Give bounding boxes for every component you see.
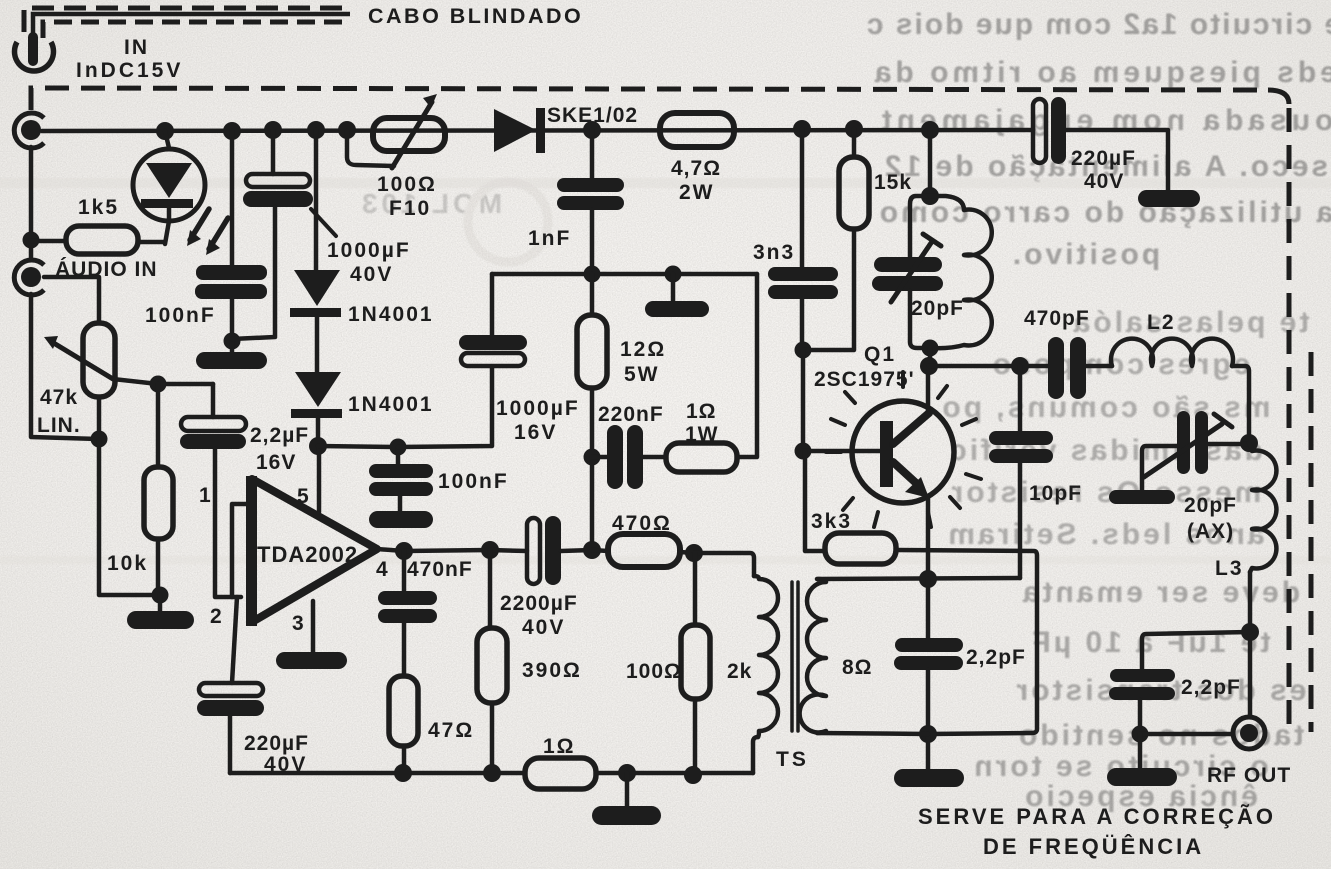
- rail B: emitter/secondary: [817, 578, 1020, 579]
- svg-text:390Ω: 390Ω: [522, 659, 582, 682]
- svg-text:16V: 16V: [514, 421, 557, 444]
- svg-text:100nF: 100nF: [145, 304, 216, 327]
- AUDIO IN RCA connector: [21, 267, 41, 287]
- capacitor 2,2uF 16V: [211, 384, 216, 417]
- shielded-cable dashed line 3: [43, 22, 348, 38]
- svg-text:4: 4: [376, 558, 388, 581]
- svg-text:2,2pF: 2,2pF: [966, 646, 1026, 669]
- svg-text:2W: 2W: [679, 181, 715, 204]
- resistor 1k5: [31, 239, 66, 244]
- fuse-resistor 100R F10: [347, 131, 394, 166]
- resistor 4,7R 2W: [660, 113, 734, 147]
- node: [1011, 357, 1029, 375]
- potentiometer 47k LIN: [44, 277, 99, 323]
- svg-text:RF OUT: RF OUT: [1207, 764, 1291, 787]
- diode 1N4001 (second): [295, 372, 341, 407]
- svg-text:2,2µF: 2,2µF: [250, 424, 309, 447]
- transformer TS primary: [753, 737, 758, 773]
- svg-text:1W: 1W: [685, 423, 719, 446]
- ground: [369, 511, 433, 528]
- capacitor 470pF: [1048, 337, 1064, 399]
- svg-text:a utilização do carro como: a utilização do carro como: [877, 196, 1331, 229]
- svg-text:100Ω: 100Ω: [377, 173, 437, 196]
- resistor 47R: [389, 676, 418, 746]
- node: [481, 541, 499, 559]
- emitter wire: [926, 497, 931, 579]
- dashed border right vertical 2: [1309, 352, 1314, 732]
- svg-text:15k: 15k: [874, 171, 912, 194]
- svg-text:(AX): (AX): [1187, 520, 1234, 543]
- capacitor 2200uF 40V: [527, 518, 540, 584]
- shielded-cable line 2 (solid): [33, 14, 350, 40]
- node: [150, 376, 167, 393]
- coil L2: [1111, 339, 1233, 366]
- svg-text:1N4001: 1N4001: [348, 303, 434, 326]
- resistor 1R: [525, 758, 596, 789]
- node: [684, 766, 702, 784]
- svg-text:LIN.: LIN.: [37, 414, 81, 437]
- svg-text:220nF: 220nF: [598, 403, 664, 426]
- capacitor 220nF: [592, 455, 607, 460]
- svg-text:2k: 2k: [727, 660, 752, 683]
- power plug connector: [14, 42, 53, 71]
- RF OUT connector: [1240, 724, 1258, 742]
- svg-text:Q1: Q1: [864, 343, 896, 366]
- svg-text:40V: 40V: [1084, 170, 1124, 193]
- capacitor 220uF 40V (pin2): [232, 597, 237, 683]
- svg-text:1000µF: 1000µF: [327, 239, 411, 262]
- svg-text:leds piesquem ao ritmo da: leds piesquem ao ritmo da: [871, 56, 1331, 89]
- wire: mid rail y=274: [492, 272, 757, 277]
- ground: [127, 611, 194, 629]
- wire pin5 node to 1000uF16V: [398, 368, 492, 447]
- node: [483, 764, 501, 782]
- node: [1132, 726, 1149, 743]
- node: [91, 431, 108, 448]
- svg-text:40V: 40V: [350, 263, 393, 286]
- resistor 12R 5W: [590, 274, 595, 315]
- case ticks: [826, 372, 981, 527]
- collector rail y=366: [929, 364, 1048, 369]
- node: [919, 725, 937, 743]
- svg-text:te pelas salóa: te pelas salóa: [1071, 306, 1310, 339]
- transformer TS secondary: [800, 579, 826, 733]
- shielded-cable dashed line 1: [24, 8, 352, 32]
- svg-text:8Ω: 8Ω: [842, 656, 873, 679]
- capacitor 220uF 40V (top right): [1033, 99, 1046, 163]
- svg-text:DE FREQÜÊNCIA: DE FREQÜÊNCIA: [983, 834, 1204, 859]
- svg-text:3: 3: [292, 612, 304, 635]
- transistor Q1 2SC1975: [852, 401, 954, 503]
- diode SKE1/02: [494, 109, 536, 152]
- wire: rail to 220uF top right: [1066, 130, 1168, 190]
- svg-text:1Ω: 1Ω: [543, 735, 576, 758]
- svg-text:TS: TS: [776, 748, 809, 771]
- resistor 390R: [488, 550, 493, 628]
- node: [394, 764, 412, 782]
- tank circuit: column from rail: [928, 130, 933, 196]
- svg-text:10k: 10k: [107, 552, 148, 575]
- wire: main +V rail: [42, 130, 1033, 131]
- svg-text:220µF: 220µF: [1071, 147, 1136, 170]
- ground: [196, 352, 267, 369]
- capacitor 470nF: [402, 551, 407, 591]
- svg-text:2200µF: 2200µF: [500, 592, 578, 615]
- diode 1N4001 (first): [314, 130, 319, 270]
- svg-text:3n3: 3n3: [753, 241, 795, 264]
- svg-text:IN: IN: [124, 36, 149, 59]
- audio shell return wire: [31, 294, 98, 439]
- wire: left column DC in to audio in: [29, 147, 34, 260]
- svg-text:100Ω: 100Ω: [626, 660, 682, 683]
- svg-text:2SC1975': 2SC1975': [814, 368, 915, 391]
- base wire Q1: [801, 350, 806, 451]
- pin3 ground: [311, 601, 316, 652]
- node: [152, 587, 169, 604]
- node: [920, 357, 938, 375]
- capacitor 10pF: [1018, 366, 1023, 431]
- node: [584, 266, 601, 283]
- svg-text:47k: 47k: [40, 386, 78, 409]
- node: [922, 340, 939, 357]
- svg-text:470Ω: 470Ω: [612, 512, 672, 535]
- node: [1240, 434, 1258, 452]
- TDA2002 pin1/pin2 leads: [232, 504, 249, 597]
- svg-text:CABO BLINDADO: CABO BLINDADO: [368, 4, 583, 28]
- coil L3: [1249, 443, 1276, 572]
- svg-text:16V: 16V: [256, 451, 296, 474]
- node: [309, 437, 327, 455]
- svg-text:SERVE PARA A CORREÇÃO: SERVE PARA A CORREÇÃO: [918, 804, 1276, 829]
- LED arrows: [190, 209, 209, 240]
- svg-text:1N4001: 1N4001: [348, 393, 434, 416]
- collector wire: [926, 366, 931, 413]
- chassis stub: [671, 274, 676, 301]
- node: [1241, 623, 1259, 641]
- node: [23, 232, 40, 249]
- svg-text:ÁUDIO IN: ÁUDIO IN: [55, 258, 158, 281]
- svg-text:L3: L3: [1215, 557, 1244, 580]
- svg-text:40V: 40V: [522, 616, 565, 639]
- dashed border corner: [1268, 90, 1289, 104]
- node: [921, 187, 939, 205]
- capacitor 1nF: [590, 130, 595, 178]
- svg-text:20pF: 20pF: [1184, 494, 1237, 517]
- node: [584, 449, 601, 466]
- node: [919, 570, 937, 588]
- node: [395, 542, 413, 560]
- resistor 100R: [693, 553, 698, 625]
- bottom rail y=773: [230, 771, 525, 776]
- resistor 3k3: [825, 533, 896, 564]
- node: [795, 443, 812, 460]
- svg-text:470nF: 470nF: [407, 558, 473, 581]
- node: [665, 266, 682, 283]
- TDA2002 output rail y=551: [377, 549, 404, 551]
- svg-text:TDA2002: TDA2002: [257, 542, 358, 567]
- svg-text:deve ser emanta: deve ser emanta: [1020, 576, 1300, 609]
- svg-text:1Ω: 1Ω: [686, 400, 717, 423]
- node: [685, 544, 703, 562]
- capacitor 1000uF 40V: [271, 130, 276, 174]
- svg-text:F10: F10: [389, 197, 431, 220]
- dashed border right vertical: [1287, 108, 1292, 734]
- svg-text:5: 5: [297, 485, 309, 508]
- resistor 15k: [852, 129, 857, 157]
- svg-text:470pF: 470pF: [1024, 307, 1090, 330]
- svg-text:220µF: 220µF: [244, 732, 309, 755]
- node: [390, 439, 407, 456]
- pin5 wire: [317, 446, 322, 512]
- svg-text:100nF: 100nF: [438, 470, 509, 493]
- main dashed border top: [31, 88, 1263, 110]
- node: [795, 342, 812, 359]
- capacitor 1000uF 16V: [490, 274, 495, 335]
- svg-text:10pF: 10pF: [1029, 482, 1082, 505]
- trimmer 20pF: [910, 196, 930, 257]
- svg-text:1k5: 1k5: [78, 196, 119, 219]
- svg-text:2,2pF: 2,2pF: [1181, 676, 1241, 699]
- trimmer 20pF (AX): [1207, 442, 1249, 447]
- node: [618, 764, 636, 782]
- svg-text:4,7Ω: 4,7Ω: [671, 157, 721, 180]
- DC IN RCA connector: [21, 120, 41, 140]
- capacitor 2,2pF (output): [1142, 632, 1250, 669]
- node: [224, 333, 241, 350]
- svg-text:12Ω: 12Ω: [620, 338, 666, 361]
- svg-text:40V: 40V: [264, 753, 307, 776]
- svg-text:L2: L2: [1147, 311, 1176, 334]
- resistor 1R 1W: [666, 443, 737, 472]
- svg-text:e circuito 1a2 com que dois c: e circuito 1a2 com que dois c: [865, 8, 1331, 41]
- op-amp TDA2002: [252, 479, 377, 622]
- svg-text:1nF: 1nF: [528, 227, 571, 250]
- svg-text:InDC15V: InDC15V: [76, 59, 183, 82]
- node dots on +V rail: [156, 120, 939, 140]
- svg-text:20pF: 20pF: [911, 297, 964, 320]
- capacitor 2,2pF (emitter): [926, 579, 931, 638]
- svg-text:47Ω: 47Ω: [428, 719, 474, 742]
- svg-text:positivo.: positivo.: [1010, 238, 1160, 271]
- svg-text:1: 1: [199, 484, 211, 507]
- svg-text:SKE1/02: SKE1/02: [547, 104, 638, 127]
- svg-text:3k3: 3k3: [811, 510, 852, 533]
- wire pin5 node to 100nF: [318, 446, 398, 447]
- capacitor 100nF (ripple): [369, 464, 433, 478]
- LED D1: [165, 131, 169, 148]
- resistor 470R: [608, 534, 680, 567]
- resistor 10k: [156, 384, 161, 467]
- svg-text:1000µF: 1000µF: [496, 397, 580, 420]
- coil L1: [930, 196, 992, 348]
- svg-text:5W: 5W: [624, 363, 660, 386]
- capacitor 100nF (input): [230, 131, 235, 265]
- svg-text:2: 2: [210, 605, 222, 628]
- capacitor 3n3: [800, 129, 805, 267]
- node: [583, 541, 601, 559]
- transformer core: [790, 582, 794, 731]
